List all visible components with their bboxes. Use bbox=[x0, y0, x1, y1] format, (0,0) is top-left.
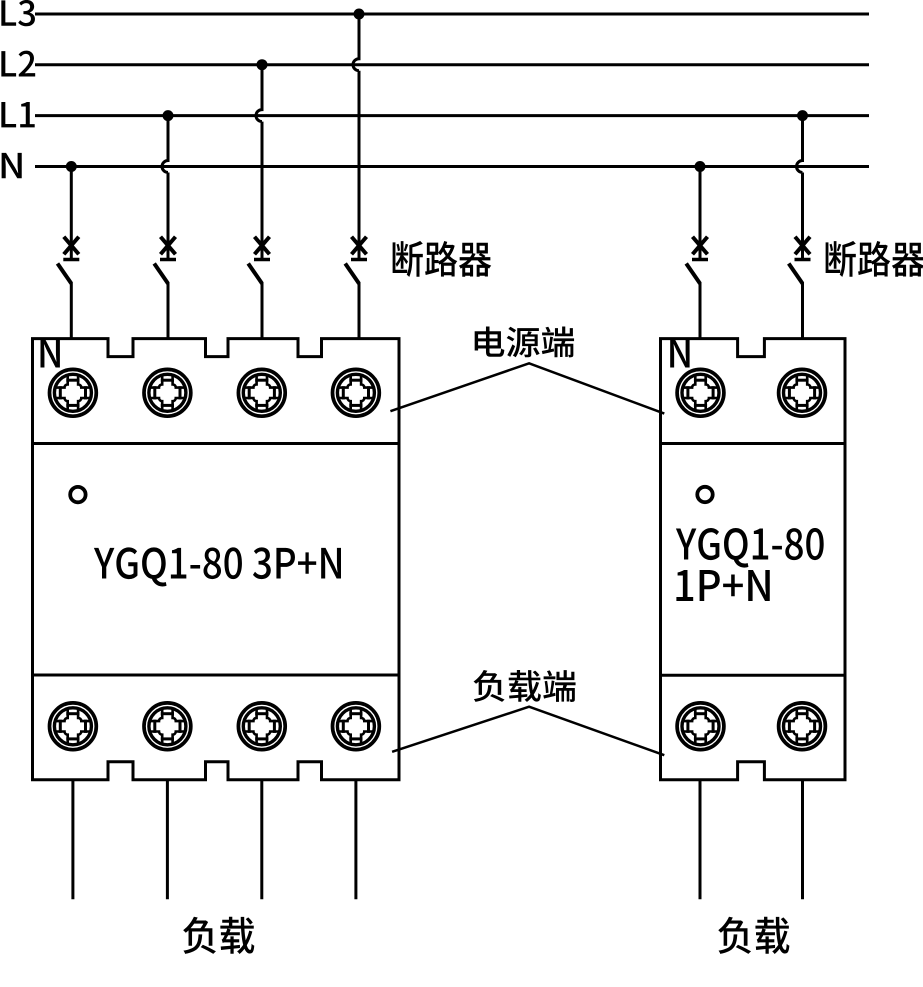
indicator window U1 bbox=[70, 487, 85, 502]
label YGQ1-80 on U2 bbox=[676, 528, 824, 568]
wire load U2 x=700.0 bbox=[699, 780, 702, 900]
label 电源端 bbox=[475, 327, 574, 358]
wire bus L1 bbox=[35, 114, 869, 117]
node label L3 bbox=[1, 0, 35, 26]
junction dot on N at x=700 bbox=[695, 161, 706, 172]
indicator window U2 bbox=[697, 487, 712, 502]
circuit breaker QF4 at x=359 bbox=[345, 237, 367, 341]
circuit breaker QF3 at x=262 bbox=[248, 237, 270, 341]
SPD U1 (YGQ1-80 3P+N) body outline bbox=[33, 339, 400, 780]
circuit breaker QF2 at x=168 bbox=[154, 237, 176, 341]
terminal screw U1 top 2 bbox=[144, 369, 191, 416]
wire load U2 x=802.5 bbox=[801, 780, 804, 900]
terminal screw U1 bottom 3 bbox=[238, 703, 285, 750]
wire bus L2 bbox=[35, 63, 869, 66]
label 断路器 (right) bbox=[826, 241, 923, 277]
circuit breaker QF1 at x=71 bbox=[58, 237, 80, 341]
wire drop from L2 at x=262 bbox=[256, 65, 262, 258]
terminal screw U2 top 1 bbox=[677, 369, 724, 416]
SPD U2 (YGQ1-80 1P+N) upper divider bbox=[661, 442, 846, 445]
terminal screw U2 bottom 1 bbox=[677, 703, 724, 750]
node label L2 bbox=[1, 51, 35, 77]
terminal screw U1 top 3 bbox=[238, 369, 285, 416]
wire load U1 x=355.9 bbox=[354, 780, 357, 900]
terminal screw U1 bottom 2 bbox=[144, 703, 191, 750]
wire load U1 x=72.9 bbox=[71, 780, 74, 900]
terminal screw U1 bottom 4 bbox=[333, 703, 380, 750]
wire drop from L1 at x=168 bbox=[162, 116, 168, 258]
circuit breaker QF5 at x=700 bbox=[686, 237, 708, 341]
wire bus N bbox=[35, 165, 869, 168]
node label N bbox=[2, 153, 22, 178]
wire bus L3 bbox=[35, 13, 869, 16]
label N terminal U2 bbox=[670, 338, 689, 367]
junction dot on L1 at x=802 bbox=[797, 110, 808, 121]
junction dot on N at x=71 bbox=[66, 161, 77, 172]
wire load U1 x=261.8 bbox=[260, 780, 263, 900]
terminal screw U1 bottom 1 bbox=[50, 703, 97, 750]
SPD U2 (YGQ1-80 1P+N) body outline bbox=[661, 339, 846, 780]
terminal screw U2 top 2 bbox=[779, 369, 826, 416]
wire drop from L1 at x=802 bbox=[797, 116, 803, 258]
label 断路器 (left) bbox=[393, 241, 492, 277]
wire drop from N at x=71 bbox=[70, 167, 73, 259]
SPD U1 (YGQ1-80 3P+N) upper divider bbox=[33, 442, 400, 445]
label 1P+N on U2 bbox=[676, 570, 769, 601]
SPD U2 (YGQ1-80 1P+N) lower divider bbox=[661, 674, 846, 677]
SPD U1 (YGQ1-80 3P+N) lower divider bbox=[33, 674, 400, 677]
label 负载端 bbox=[474, 670, 576, 702]
terminal screw U1 top 1 bbox=[50, 369, 97, 416]
node label L1 bbox=[1, 102, 34, 127]
label 负载 (left) bbox=[183, 917, 254, 954]
label N terminal U1 bbox=[40, 338, 59, 367]
junction dot on L3 at x=359 bbox=[354, 9, 365, 20]
junction dot on L1 at x=168 bbox=[163, 110, 174, 121]
callout lines 电源端 bbox=[390, 363, 664, 413]
wire drop from N at x=700 bbox=[699, 167, 702, 259]
label 负载 (right) bbox=[718, 917, 789, 954]
terminal screw U2 bottom 2 bbox=[779, 703, 826, 750]
terminal screw U1 top 4 bbox=[333, 369, 380, 416]
callout lines 负载端 bbox=[392, 707, 664, 756]
label YGQ1-80 3P+N on U1 bbox=[94, 547, 341, 586]
junction dot on L2 at x=262 bbox=[257, 59, 268, 70]
wire load U1 x=167.4 bbox=[166, 780, 169, 900]
wire drop from L3 at x=359 bbox=[353, 14, 359, 258]
circuit breaker QF6 at x=802 bbox=[789, 237, 811, 341]
